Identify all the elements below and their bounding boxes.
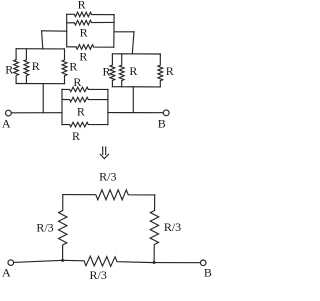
resistor R (right group 2) xyxy=(119,54,124,87)
wire (left group bottom rail) xyxy=(16,83,64,85)
svg-text:R: R xyxy=(80,25,88,39)
wire (node D trunk down) xyxy=(132,32,134,54)
wire (top group left edge, node C) xyxy=(66,14,68,47)
wire (node D horizontal) xyxy=(114,31,134,33)
resistor R (bottom group branch 1) xyxy=(62,87,108,92)
terminal B circle (bottom figure) xyxy=(200,260,206,266)
double down arrow head right xyxy=(104,154,108,158)
resistor R (top group branch 1) xyxy=(67,12,114,17)
svg-text:R/3: R/3 xyxy=(36,221,53,235)
resistor R (top group branch 3) xyxy=(67,45,114,50)
wire (top group right edge, node D) xyxy=(113,15,115,48)
double down arrow head left xyxy=(100,154,104,158)
junction dot (right node) xyxy=(153,261,156,264)
svg-text:R: R xyxy=(77,105,85,119)
resistor R (bottom group branch 2) xyxy=(62,97,108,102)
wire (right group top rail) xyxy=(112,53,160,55)
wire (A rail) xyxy=(11,112,62,114)
terminal A circle xyxy=(6,110,12,116)
double down arrow shaft right xyxy=(105,147,107,155)
resistor R/3 (left branch) xyxy=(58,195,66,261)
wire (right node to B) xyxy=(154,262,200,264)
resistor R (top group branch 2) xyxy=(67,20,114,25)
svg-text:R/3: R/3 xyxy=(99,170,116,184)
svg-text:R: R xyxy=(79,50,87,64)
wire (A to left node) xyxy=(14,260,63,262)
svg-text:B: B xyxy=(204,266,212,280)
terminal A circle (bottom figure) xyxy=(8,260,14,266)
resistor R (left group 1) xyxy=(14,49,19,84)
svg-text:R/3: R/3 xyxy=(90,268,107,282)
double down arrow shaft left xyxy=(102,147,104,155)
terminal B circle xyxy=(163,110,169,116)
wire (right trunk to B rail) xyxy=(132,87,134,113)
wire (right group bottom rail) xyxy=(112,86,160,88)
resistor R (left group 2) xyxy=(24,49,29,84)
resistor R (bottom group branch 3) xyxy=(62,122,108,127)
wire (bottom group left edge) xyxy=(61,89,63,124)
wire (left group top rail) xyxy=(16,48,64,50)
svg-text:A: A xyxy=(2,266,11,280)
svg-text:R/3: R/3 xyxy=(164,220,181,234)
resistor R/3 (top branch) xyxy=(63,190,155,200)
svg-text:R: R xyxy=(78,0,86,11)
wire (node C trunk down) xyxy=(42,31,43,49)
wire (left trunk to A rail) xyxy=(42,84,44,113)
resistor R/3 (bottom branch) xyxy=(63,256,155,266)
svg-text:R: R xyxy=(166,64,174,78)
svg-text:B: B xyxy=(158,116,166,130)
svg-text:A: A xyxy=(2,116,11,130)
wire (B rail) xyxy=(108,112,163,114)
resistor R (right group 3) xyxy=(158,54,163,87)
svg-text:R: R xyxy=(69,60,77,74)
svg-text:R: R xyxy=(72,129,80,143)
wire (node C horizontal) xyxy=(42,30,67,32)
svg-text:R: R xyxy=(32,59,40,73)
svg-text:R: R xyxy=(73,75,81,89)
wire (bottom group right edge) xyxy=(107,89,109,124)
svg-text:R: R xyxy=(102,65,110,79)
resistor R (left group 3) xyxy=(62,49,67,84)
junction dot (left node) xyxy=(61,259,64,262)
svg-text:R: R xyxy=(129,64,137,78)
resistor R (right group 1) xyxy=(110,54,115,87)
resistor R/3 (right branch) xyxy=(150,195,159,263)
svg-text:R: R xyxy=(5,63,13,77)
